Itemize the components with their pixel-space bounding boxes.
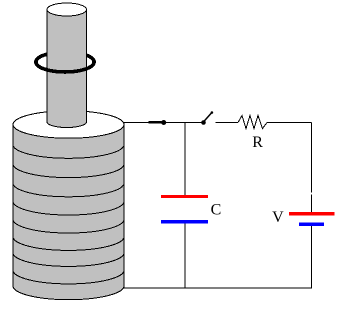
svg-text:V: V: [272, 209, 284, 226]
svg-text:R: R: [252, 134, 263, 151]
svg-text:C: C: [211, 201, 222, 218]
